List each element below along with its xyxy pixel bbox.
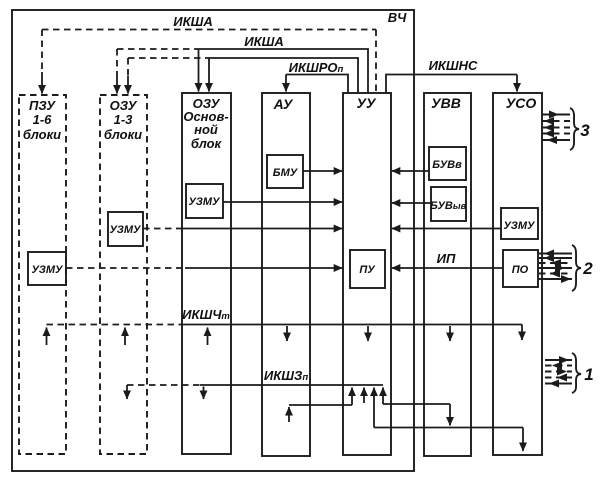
svg-text:ОЗУ: ОЗУ [110, 98, 138, 113]
block УУ [343, 93, 391, 455]
svg-text:блок: блок [191, 136, 223, 151]
wire ИКШЗп to УСО (line B) [374, 388, 523, 452]
svg-text:1-3: 1-3 [114, 112, 134, 127]
sub-block УЗМУ in ОЗУ 1-3 [108, 212, 143, 246]
node arrow ИКШЗп to ОЗУ осн [203, 387, 205, 400]
channel group 2 arrows at ПО [539, 250, 572, 284]
brace group 2 [572, 245, 593, 291]
wire УЗМУ(ОЗУ 1-3) to УУ [143, 228, 342, 230]
wire УЗМУ(УСО) to УУ [392, 228, 501, 230]
svg-text:ПУ: ПУ [359, 264, 376, 276]
svg-text:блоки: блоки [23, 127, 61, 142]
node arrow ИКШЧт to УУ [367, 326, 369, 341]
wire УЗМУ(осн) to УУ [223, 201, 342, 203]
svg-text:ИКША: ИКША [244, 34, 283, 49]
svg-text:ИКШРОп: ИКШРОп [289, 60, 344, 75]
svg-text:УСО: УСО [506, 95, 537, 111]
block УВВ [424, 93, 471, 456]
svg-text:БУВыв: БУВыв [430, 200, 467, 212]
svg-text:ИКШЗп: ИКШЗп [264, 368, 308, 383]
svg-text:БУВв: БУВв [432, 159, 462, 171]
sub-block УЗМУ in ПЗУ [28, 252, 66, 285]
sub-block УЗМУ in ОЗУ осн [186, 184, 223, 218]
node arrow ИКШЗп to ОЗУ 1-3 [126, 385, 128, 399]
node arrow ИКШЧт to АУ [286, 326, 288, 341]
wire УЗМУ(ПЗУ) to УУ [66, 267, 342, 269]
block УСО [493, 93, 542, 455]
svg-text:УУ: УУ [357, 95, 377, 111]
bus ИКШЗп [127, 368, 383, 385]
wire АУ feed to ИКШЗп [289, 388, 352, 423]
svg-text:ВЧ: ВЧ [388, 10, 407, 25]
brace group 1 [572, 353, 594, 393]
wire ИП (ПО to УУ/ПУ) [392, 251, 503, 268]
node arrow ИКШЧт at ОЗУ 1-3 [124, 328, 126, 346]
bus ИКШНС [386, 58, 517, 93]
frame ВЧ (computing part outer box) [12, 10, 414, 471]
node arrow ИКШЧт at ОЗУ осн [207, 328, 209, 346]
wire УУ feed to ИКШЗп [363, 388, 365, 404]
sub-block БМУ in АУ [267, 155, 303, 188]
brace group 3 [570, 108, 590, 150]
sub-block БУВыв in УВВ [430, 187, 467, 221]
bus ИКШРОп [286, 60, 348, 93]
svg-text:ИП: ИП [437, 251, 456, 266]
block ПЗУ 1-6 блоки [19, 95, 66, 454]
svg-text:УЗМУ: УЗМУ [189, 196, 222, 208]
channel group 3 arrows at УСО [542, 111, 570, 145]
svg-text:2: 2 [582, 259, 593, 278]
svg-text:блоки: блоки [104, 127, 142, 142]
bus line 2 (second ИКША line) [128, 58, 358, 94]
svg-text:ПЗУ: ПЗУ [29, 98, 56, 113]
sub-block ПУ in УУ [350, 250, 385, 288]
wire БМУ to УУ [303, 170, 342, 172]
block АУ [262, 93, 310, 456]
block ОЗУ 1-3 блоки [100, 95, 147, 454]
bus ИКША solid line 1 [117, 34, 368, 94]
sub-block ПО in УСО [503, 250, 538, 287]
svg-text:УЗМУ: УЗМУ [504, 220, 537, 232]
svg-text:1-6: 1-6 [33, 112, 53, 127]
svg-text:БМУ: БМУ [273, 167, 299, 179]
channel group 1 arrows at УСО bottom [545, 356, 572, 388]
svg-text:3: 3 [580, 121, 590, 140]
svg-text:1: 1 [584, 365, 593, 384]
svg-text:УЗМУ: УЗМУ [110, 224, 143, 236]
node arrow ИКШЧт to УВВ [449, 326, 451, 341]
wire БУВв to УУ [392, 170, 429, 172]
svg-text:ПО: ПО [512, 264, 529, 276]
node arrow ИКШЧт at ПЗУ [46, 328, 48, 346]
svg-text:УВВ: УВВ [431, 95, 461, 111]
wire БУВыв to УУ [392, 202, 431, 204]
svg-text:ИКШНС: ИКШНС [429, 58, 478, 73]
svg-text:УЗМУ: УЗМУ [32, 264, 65, 276]
bus ИКШЧт [47, 307, 523, 325]
sub-block УЗМУ in УСО [501, 208, 538, 239]
wire ИКШЗп to УВВ (line A) [383, 388, 450, 426]
sub-block БУВв in УВВ [429, 147, 466, 180]
svg-text:АУ: АУ [273, 96, 294, 112]
node arrow ИКШЧт to УСО [521, 325, 523, 341]
bus ИКША dashed (outer) [42, 14, 376, 94]
block ОЗУ Основной блок [182, 93, 231, 454]
svg-text:ИКША: ИКША [173, 14, 212, 29]
svg-text:ной: ной [194, 122, 218, 137]
